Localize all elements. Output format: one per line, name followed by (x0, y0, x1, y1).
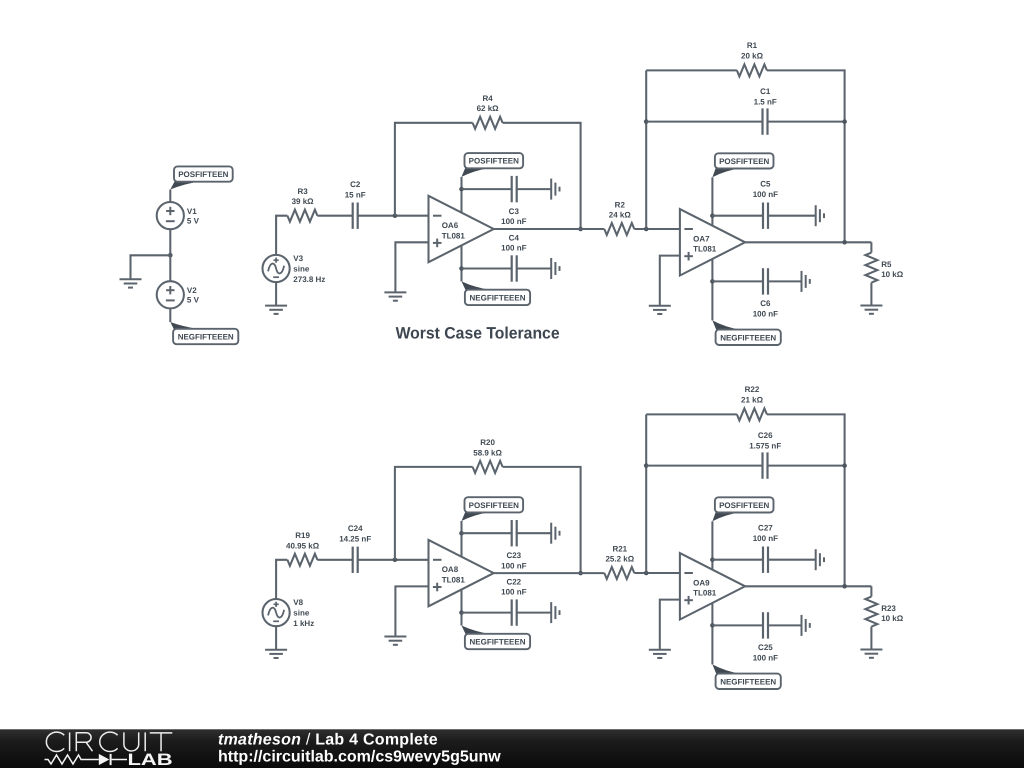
wire V- rail to C22 (462, 612, 512, 614)
svg-text:14.25 nF: 14.25 nF (339, 534, 371, 543)
svg-text:R22: R22 (745, 385, 760, 394)
node OA7 V- junction (710, 279, 715, 284)
node OA8 V- junction (459, 610, 464, 615)
svg-text:1.575 nF: 1.575 nF (749, 442, 781, 451)
wire C5 to ground (768, 215, 816, 217)
ground (C3) (551, 179, 559, 200)
wire feedback right vertical (767, 414, 845, 586)
wire C22 to ground (517, 612, 552, 614)
wire feedback left/top R4 (395, 123, 473, 216)
ground (R5) (860, 306, 882, 314)
svg-text:20 kΩ: 20 kΩ (741, 51, 764, 60)
node OA9 V+ junction (710, 557, 715, 562)
svg-text:sine: sine (293, 609, 310, 618)
label R22 (741, 385, 764, 404)
wire C4 to ground (517, 267, 552, 269)
ground (C23) (551, 523, 559, 544)
ground (left column) (120, 279, 142, 287)
wire R21 to OA9 inverting input (634, 572, 680, 574)
svg-text:C3: C3 (509, 207, 520, 216)
svg-text:5 V: 5 V (187, 296, 200, 305)
svg-text:21 kΩ: 21 kΩ (741, 395, 764, 404)
wire OA9 output (745, 585, 871, 587)
capacitor C4 (V- bypass) (512, 255, 517, 281)
svg-text:OA8: OA8 (442, 565, 459, 574)
wire POSFIFTEEN to V1 (169, 190, 171, 203)
svg-text:R4: R4 (482, 94, 493, 103)
svg-text:NEGFIFTEEEN: NEGFIFTEEEN (178, 333, 234, 342)
wire V+ rail to C27 (712, 559, 763, 561)
label C2 (345, 180, 366, 199)
wire node to ground (131, 255, 171, 279)
wire output to R23 (870, 586, 872, 596)
op-amp OA8 (429, 540, 494, 606)
svg-text:273.8 Hz: 273.8 Hz (293, 275, 325, 284)
logo diode (99, 754, 127, 765)
svg-text:NEGFIFTEEEN: NEGFIFTEEEN (720, 333, 776, 342)
wire R19 to C24 (317, 559, 352, 561)
wire V8 to R19 (276, 560, 287, 599)
wire OA8 V- pin (460, 589, 462, 625)
capacitor C2 (353, 203, 358, 229)
svg-text:TL081: TL081 (442, 231, 466, 240)
node OA8 output junction (578, 571, 583, 576)
wire C1 right (768, 121, 845, 123)
svg-text:TL081: TL081 (693, 589, 717, 598)
wire C24 to OA8 inverting input (358, 559, 429, 561)
wire feedback left/top R20 (395, 467, 473, 560)
wire C3 to ground (517, 188, 552, 190)
wire C25 to ground (768, 624, 802, 626)
label R19 (286, 531, 320, 550)
resistor R2 (604, 223, 634, 235)
svg-text:1.5 nF: 1.5 nF (754, 98, 777, 107)
node OA8 input junction (393, 558, 398, 563)
svg-text:39 kΩ: 39 kΩ (292, 197, 315, 206)
node OA9 input junction (644, 571, 649, 576)
wire OA9 V+ pin (711, 521, 713, 570)
capacitor C3 (V+ bypass) (512, 176, 517, 202)
net flag NEGFIFTEEEN (OA7) (712, 320, 780, 345)
svg-text:C22: C22 (506, 577, 521, 586)
svg-text:C26: C26 (758, 431, 773, 440)
wire R2 to OA7 inverting input (634, 228, 680, 230)
net flag NEGFIFTEEEN (OA9) (712, 664, 780, 689)
ground (C5) (816, 205, 824, 226)
label V1 5 V (187, 207, 200, 226)
label V2 5 V (187, 286, 200, 305)
wire OA7 V- pin (711, 259, 713, 321)
wire V8 to ground (275, 626, 277, 650)
wire C27 to ground (768, 559, 816, 561)
svg-text:OA9: OA9 (693, 578, 710, 587)
capacitor C22 (V- bypass) (512, 599, 517, 625)
svg-text:100 nF: 100 nF (501, 244, 526, 253)
svg-text:POSFIFTEEN: POSFIFTEEN (469, 157, 519, 166)
svg-text:TL081: TL081 (442, 575, 466, 584)
wire V- rail to C4 (462, 267, 512, 269)
title Worst Case Tolerance (396, 325, 560, 343)
ground (OA9 +input) (649, 650, 671, 658)
label V3 (293, 254, 325, 284)
svg-text:15 nF: 15 nF (345, 190, 366, 199)
svg-text:C6: C6 (760, 299, 771, 308)
svg-text:V8: V8 (293, 598, 303, 607)
svg-text:R21: R21 (612, 544, 627, 553)
label R20 (473, 438, 502, 457)
svg-text:100 nF: 100 nF (753, 310, 778, 319)
svg-text:LAB: LAB (128, 751, 173, 768)
wire R5 to ground (870, 283, 872, 306)
svg-text:V2: V2 (187, 286, 197, 295)
wire OA7 output (745, 241, 871, 243)
capacitor C1 (feedback) (763, 108, 768, 134)
svg-text:POSFIFTEEN: POSFIFTEEN (719, 501, 769, 510)
svg-text:C27: C27 (758, 523, 773, 532)
ground (OA8 +input) (384, 637, 406, 645)
svg-text:100 nF: 100 nF (501, 217, 526, 226)
wire C23 to ground (517, 532, 552, 534)
label R2 (609, 200, 632, 219)
svg-text:OA6: OA6 (442, 221, 459, 230)
label C23 (501, 551, 526, 570)
svg-text:25.2 kΩ: 25.2 kΩ (605, 555, 634, 564)
label C1 (754, 87, 777, 106)
label C6 (753, 299, 778, 319)
svg-text:sine: sine (293, 265, 310, 274)
net flag POSFIFTEEN (OA7) (712, 153, 773, 177)
ground (OA7 +input) (649, 306, 671, 314)
wire OA9 non-inverting to ground (660, 600, 680, 650)
node OA6 input junction (393, 213, 398, 218)
label C22 (501, 577, 526, 596)
svg-text:R19: R19 (295, 531, 310, 540)
footer bar (0, 729, 1024, 768)
node OA7 V+ junction (710, 213, 715, 218)
node OA7 output junction (842, 240, 847, 245)
svg-text:R5: R5 (881, 260, 892, 269)
ground (C27) (816, 549, 824, 570)
svg-text:C25: C25 (758, 643, 773, 652)
resistor R1 (feedback) (737, 64, 767, 76)
resistor R20 (feedback) (473, 461, 503, 473)
wire feedback top R1 (646, 69, 737, 71)
wire V3 to ground (275, 282, 277, 306)
capacitor C23 (V+ bypass) (512, 520, 517, 546)
capacitor C27 (V+ bypass) (763, 547, 768, 573)
wire C2 to OA6 inverting input (358, 215, 429, 217)
wire node to V2 (169, 255, 171, 281)
wire OA9 V- pin (711, 603, 713, 665)
node OA9 V- junction (710, 623, 715, 628)
svg-text:NEGFIFTEEEN: NEGFIFTEEEN (469, 638, 525, 647)
resistor R5 (load) (865, 253, 877, 283)
net flag POSFIFTEEN (OA9) (712, 497, 773, 521)
wire feedback left vertical (645, 70, 647, 229)
capacitor C6 (V- bypass) (763, 268, 768, 294)
wire OA7 non-inverting to ground (660, 256, 680, 306)
svg-text:V3: V3 (293, 254, 303, 263)
node OA8 V+ junction (459, 531, 464, 536)
resistor R23 (load) (865, 597, 877, 627)
wire V+ rail to C5 (712, 215, 763, 217)
wire V- rail to C25 (712, 624, 763, 626)
svg-text:C2: C2 (350, 180, 361, 189)
svg-text:10 kΩ: 10 kΩ (881, 614, 904, 623)
capacitor C24 (353, 547, 358, 573)
wire C26 left (646, 465, 762, 467)
wire feedback right R4 (503, 123, 581, 229)
resistor R22 (feedback) (737, 408, 767, 420)
svg-text:100 nF: 100 nF (753, 190, 778, 199)
resistor R3 (287, 210, 317, 222)
label C26 (749, 431, 781, 450)
footer author/title text (218, 731, 438, 748)
ground (R23) (860, 650, 882, 658)
wire R3 to C2 (317, 215, 352, 217)
svg-text:R2: R2 (615, 200, 626, 209)
wire OA6 output (494, 228, 605, 230)
wire OA8 V+ pin (460, 521, 462, 557)
svg-text:R20: R20 (480, 438, 495, 447)
sine source V8 (263, 599, 290, 626)
ground (V3) (265, 306, 287, 314)
svg-text:62 kΩ: 62 kΩ (477, 104, 500, 113)
capacitor C26 (feedback) (763, 452, 768, 478)
node C26 right junction (842, 463, 847, 468)
label R5 (881, 260, 904, 279)
ground (C22) (551, 602, 559, 623)
node C1 right junction (842, 119, 847, 124)
ground (OA6 +input) (384, 292, 406, 300)
resistor R19 (287, 554, 317, 566)
node C1 left junction (644, 119, 649, 124)
net flag NEGFIFTEEEN (OA6) (462, 281, 531, 305)
svg-text:100 nF: 100 nF (501, 561, 526, 570)
label V8 (293, 598, 314, 628)
wire OA6 non-inverting to ground (395, 242, 428, 292)
logo CIRCUIT text (46, 732, 172, 751)
ground (V8) (265, 650, 287, 658)
resistor R21 (604, 567, 634, 579)
svg-text:10 kΩ: 10 kΩ (881, 270, 904, 279)
label R4 (477, 94, 500, 113)
wire OA8 output (494, 572, 605, 574)
label R21 (605, 544, 634, 563)
wire C26 right (768, 465, 845, 467)
sine source V3 (263, 255, 290, 282)
ground (C6) (802, 271, 810, 292)
voltage source V2 (157, 281, 184, 308)
svg-text:1 kHz: 1 kHz (293, 619, 314, 628)
wire C1 left (646, 121, 762, 123)
svg-text:tmatheson / Lab 4 Complete: tmatheson / Lab 4 Complete (218, 731, 438, 748)
wire C6 to ground (768, 280, 802, 282)
svg-text:R23: R23 (881, 604, 896, 613)
voltage source V1 (157, 202, 184, 229)
ground (C25) (802, 615, 810, 636)
svg-text:OA7: OA7 (693, 234, 710, 243)
wire feedback right vertical (767, 70, 845, 242)
svg-text:100 nF: 100 nF (753, 654, 778, 663)
svg-text:100 nF: 100 nF (753, 534, 778, 543)
svg-text:POSFIFTEEN: POSFIFTEEN (178, 170, 228, 179)
resistor R4 (feedback) (473, 117, 503, 129)
footer url text (218, 748, 501, 765)
wire output to R5 (870, 242, 872, 252)
net flag POSFIFTEEN (OA6) (462, 153, 524, 177)
ground (C4) (551, 258, 559, 279)
svg-text:24 kΩ: 24 kΩ (609, 211, 632, 220)
wire R23 to ground (870, 627, 872, 650)
node OA6 output junction (578, 227, 583, 232)
label C4 (501, 233, 526, 252)
node OA6 V- junction (459, 266, 464, 271)
label R1 (741, 41, 764, 60)
capacitor C25 (V- bypass) (763, 612, 768, 638)
svg-text:POSFIFTEEN: POSFIFTEEN (719, 157, 769, 166)
svg-text:Worst Case Tolerance: Worst Case Tolerance (396, 325, 560, 343)
svg-text:C5: C5 (760, 179, 771, 188)
logo resistor zigzag (45, 755, 99, 764)
op-amp OA9 (680, 553, 745, 619)
wire OA6 V+ pin (460, 177, 462, 213)
node OA9 output junction (842, 584, 847, 589)
wire OA8 non-inverting to ground (395, 586, 428, 636)
wire feedback top R22 (646, 413, 737, 415)
label C24 (339, 524, 371, 543)
wire OA6 V- pin (460, 245, 462, 281)
label C3 (501, 207, 526, 226)
wire V- rail to C6 (712, 280, 763, 282)
op-amp OA6 (429, 196, 494, 262)
svg-text:C24: C24 (348, 524, 363, 533)
wire V1 to node (169, 229, 171, 255)
svg-text:C4: C4 (509, 233, 520, 242)
node OA6 V+ junction (459, 187, 464, 192)
capacitor C5 (V+ bypass) (763, 203, 768, 229)
svg-text:C23: C23 (506, 551, 521, 560)
node junction V1-V2 (168, 253, 173, 258)
logo LAB text (128, 751, 173, 768)
svg-text:TL081: TL081 (693, 245, 717, 254)
wire OA7 V+ pin (711, 177, 713, 226)
svg-text:40.95 kΩ: 40.95 kΩ (286, 541, 320, 550)
net flag POSFIFTEEN (OA8) (462, 497, 524, 521)
label C27 (753, 523, 778, 543)
net flag NEGFIFTEEEN (V2) (170, 322, 238, 344)
svg-text:5 V: 5 V (187, 216, 200, 225)
svg-text:http://circuitlab.com/cs9wevy5: http://circuitlab.com/cs9wevy5g5unw (218, 748, 501, 765)
svg-text:NEGFIFTEEEN: NEGFIFTEEEN (720, 677, 776, 686)
svg-text:NEGFIFTEEEN: NEGFIFTEEEN (469, 293, 525, 302)
svg-text:C1: C1 (760, 87, 771, 96)
label C25 (753, 643, 778, 663)
svg-text:POSFIFTEEN: POSFIFTEEN (469, 501, 519, 510)
node C26 left junction (644, 463, 649, 468)
svg-text:58.9 kΩ: 58.9 kΩ (473, 448, 502, 457)
net flag POSFIFTEEN (V1) (170, 166, 232, 189)
wire V2 to NEGFIFTEEEN (169, 308, 171, 322)
svg-text:V1: V1 (187, 207, 197, 216)
svg-text:100 nF: 100 nF (501, 588, 526, 597)
net flag NEGFIFTEEEN (OA8) (462, 626, 531, 650)
svg-text:R1: R1 (747, 41, 758, 50)
svg-text:R3: R3 (297, 187, 308, 196)
wire V3 to R3 (276, 216, 287, 255)
wire V+ rail to C3 (462, 188, 512, 190)
label R3 (292, 187, 315, 206)
wire feedback right R20 (503, 467, 581, 573)
wire feedback left vertical (645, 414, 647, 573)
node OA7 input junction (644, 227, 649, 232)
op-amp OA7 (680, 209, 745, 275)
wire V+ rail to C23 (462, 532, 512, 534)
label C5 (753, 179, 778, 199)
label R23 (881, 604, 904, 623)
